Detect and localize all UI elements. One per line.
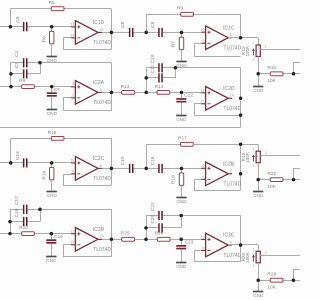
wire (R10 to edge) [283, 73, 300, 75]
wire (to C20) [146, 227, 158, 229]
svg-text:10: 10 [70, 159, 74, 163]
junction (IC3C output) [239, 243, 243, 247]
svg-text:TL074D: TL074D [93, 100, 111, 106]
ground (below C19) [51, 244, 53, 257]
wire (to C17) [10, 209, 23, 211]
wire (C17 feedback top) [27, 209, 111, 211]
wire (to IC3D -in) [63, 244, 71, 246]
wire (down to pot R19) [258, 144, 260, 151]
wire (C8 to C9) [134, 32, 159, 34]
svg-text:GND: GND [47, 193, 58, 198]
svg-text:TL074D: TL074D [223, 182, 241, 188]
junction (pot R19 bottom) [256, 178, 260, 182]
op-amp IC2D [201, 86, 242, 112]
svg-text:7: 7 [230, 169, 232, 173]
capacitor C11 [158, 73, 160, 82]
wire (C4 feedback top) [27, 62, 111, 64]
svg-text:R13: R13 [121, 84, 130, 90]
svg-text:10k: 10k [267, 78, 275, 84]
wire (to C4) [11, 62, 23, 64]
wire (C21/C20 node vertical) [146, 216, 148, 240]
svg-text:2: 2 [265, 251, 267, 255]
wire (C10 feedback top) [175, 67, 240, 69]
ground (below R18) [181, 185, 183, 197]
junction (C19 tap) [50, 232, 54, 236]
junction (R18 tap) [180, 167, 184, 171]
svg-text:100K: 100K [245, 251, 250, 263]
svg-text:IC1D: IC1D [93, 20, 105, 26]
wire (input row2) [0, 86, 72, 88]
resistor R8 [22, 85, 35, 89]
resistor R13 [122, 91, 135, 95]
wire (feedback right edge row3) [111, 138, 113, 185]
svg-text:IC2A: IC2A [93, 80, 105, 86]
op-amp IC2B [201, 162, 241, 188]
junction (row3 input node) [9, 161, 13, 165]
resistor R22 [270, 178, 283, 182]
wire (to R17) [146, 144, 180, 146]
capacitor C8 [129, 28, 131, 37]
svg-text:14: 14 [100, 235, 104, 239]
svg-text:GND: GND [253, 88, 264, 93]
junction (R17 right) [239, 143, 243, 147]
wire (IC3C out down to loop) [240, 245, 242, 262]
wire (IC2A output) [98, 92, 122, 94]
svg-text:9: 9 [72, 170, 74, 174]
wire (pot bottom) [258, 57, 260, 74]
wire (wiper of R28) [260, 255, 300, 257]
capacitor C13 [23, 158, 25, 167]
junction (C10/C11 right) [174, 66, 178, 70]
svg-text:IC3D: IC3D [93, 227, 105, 233]
svg-text:R7: R7 [170, 41, 176, 47]
ground (below pot R12) [258, 74, 260, 87]
wire (IC3C output to pot) [228, 244, 258, 246]
svg-text:IC1C: IC1C [223, 25, 235, 31]
trimmer potentiometer R28 100K [241, 248, 267, 269]
wire (input row4) [0, 233, 72, 235]
junction (R29 right) [292, 278, 296, 282]
wire (node A2 vertical) [10, 63, 12, 87]
junction (feedback/bus) [239, 113, 243, 117]
capacitor C6 [23, 22, 25, 31]
wire (C3/C4 join) [40, 63, 42, 74]
svg-text:TL074D: TL074D [223, 46, 241, 52]
svg-text:100K: 100K [245, 151, 250, 163]
wire (R22 to edge) [283, 179, 300, 181]
svg-text:R6: R6 [41, 36, 47, 42]
svg-text:C17: C17 [14, 196, 20, 205]
svg-text:R14: R14 [155, 84, 164, 90]
junction (row2 input node) [9, 85, 13, 89]
junction (C3 left) [9, 72, 13, 76]
wire (IC2C feedback loop) [64, 175, 112, 186]
wire (to R10) [258, 73, 270, 75]
resistor R10 [270, 72, 283, 76]
wire (C10 right) [163, 67, 176, 69]
wire (C21 feedback top) [181, 215, 240, 217]
trimmer potentiometer R12 100K [241, 41, 267, 62]
svg-text:TL074D: TL074D [223, 253, 241, 259]
capacitor C17 [23, 205, 25, 214]
wire (IC2B feedback loop) [195, 180, 241, 191]
svg-text:TL074D: TL074D [223, 106, 241, 112]
svg-text:10K: 10K [267, 184, 276, 190]
svg-text:2: 2 [265, 45, 267, 49]
svg-text:2: 2 [265, 151, 267, 155]
junction (C3/C4 right) [38, 61, 42, 65]
junction (IC2A output) [110, 91, 114, 95]
svg-text:C20: C20 [150, 214, 156, 223]
wire (to R18) [181, 168, 183, 173]
junction (C12 tap) [180, 91, 184, 95]
wire (C18 to join) [27, 221, 40, 223]
wire (to R6) [51, 27, 53, 32]
svg-text:14: 14 [100, 28, 104, 32]
wire (down to pot R28) [258, 245, 260, 251]
ground (below pot R19) [258, 180, 260, 192]
svg-text:1: 1 [253, 41, 255, 45]
resistor R5 [51, 7, 64, 11]
svg-text:R23: R23 [19, 225, 28, 231]
svg-text:IC2D: IC2D [223, 86, 235, 92]
capacitor C3 [23, 69, 25, 78]
svg-text:IC3C: IC3C [223, 233, 235, 239]
wire (to C11) [146, 77, 158, 79]
svg-text:C23: C23 [185, 240, 194, 246]
wire (down to pot R12) [258, 38, 260, 45]
wire (node A3 up to R15) [10, 138, 12, 163]
capacitor C18 [23, 217, 25, 226]
junction (R6 tap) [50, 25, 54, 29]
junction (C20/C21 right) [179, 214, 183, 218]
ground (below C7) [51, 97, 53, 110]
resistor R29 [270, 278, 283, 282]
wire (IC3D feedback loop) [64, 245, 112, 257]
svg-text:R8: R8 [19, 78, 25, 84]
wire (wiper of R19) [260, 155, 300, 157]
wire (to C10) [146, 67, 158, 69]
wire (to IC1C -in) [194, 43, 202, 45]
svg-text:12: 12 [70, 230, 74, 234]
svg-text:10: 10 [201, 235, 205, 239]
resistor R15 [51, 137, 64, 141]
wire (IC1C output to pot) [228, 37, 258, 39]
svg-text:R9: R9 [177, 6, 183, 12]
svg-text:C18: C18 [14, 208, 20, 217]
junction (pot R28 bottom) [256, 278, 260, 282]
wire (up to edge) [294, 169, 301, 180]
svg-text:IC2C: IC2C [93, 156, 105, 162]
junction (IC1C output) [239, 36, 243, 40]
svg-text:GND: GND [46, 258, 57, 263]
ground (below R6) [51, 44, 53, 57]
resistor R7 [179, 37, 183, 50]
wire (node A3 to IC2C +in) [27, 162, 72, 164]
capacitor C7 [51, 87, 53, 93]
wire (to IC1D -in) [63, 37, 71, 39]
svg-text:TL074D: TL074D [93, 247, 111, 253]
junction (IC2C output) [110, 167, 114, 171]
svg-text:12: 12 [201, 89, 205, 93]
wire (node A1 to IC1D +in) [27, 26, 72, 28]
wire (IC2D feedback loop) [195, 104, 241, 116]
wire (to R7) [181, 32, 183, 37]
svg-text:3: 3 [72, 83, 74, 87]
op-amp IC2C [70, 156, 111, 182]
junction (row1 input node) [9, 25, 13, 29]
junction (IC1D output) [110, 31, 114, 35]
svg-text:R22: R22 [267, 171, 276, 177]
svg-text:5: 5 [203, 164, 205, 168]
junction (R9 tap) [144, 31, 148, 35]
resistor R17 [180, 142, 193, 146]
svg-text:3: 3 [253, 164, 255, 168]
wire (to IC2D -in) [194, 103, 202, 105]
capacitor C9 [158, 28, 160, 37]
svg-text:GND: GND [253, 193, 264, 198]
resistor R14 [157, 91, 170, 95]
svg-text:13: 13 [70, 241, 74, 245]
svg-text:C16: C16 [150, 156, 156, 165]
capacitor C12 [181, 92, 183, 98]
junction (R13/R14 node) [144, 91, 148, 95]
wire (C11 right) [163, 77, 176, 79]
wire (to IC2B -in) [194, 179, 202, 181]
capacitor C20 [158, 223, 160, 232]
capacitor C21 [158, 211, 160, 220]
svg-text:8: 8 [230, 33, 232, 37]
junction (C11 left) [144, 76, 148, 80]
wire (to C3) [11, 73, 23, 75]
junction (R22 right) [292, 178, 296, 182]
junction (R10 right) [292, 72, 296, 76]
wire (input row3) [0, 162, 23, 164]
wire (R17 to pot) [193, 144, 258, 146]
wire (IC1D output) [98, 32, 129, 34]
wire (R17 feedback path up) [146, 145, 148, 169]
resistor R6 [50, 31, 54, 44]
svg-text:C8: C8 [120, 21, 126, 27]
wire (R9 feedback path) [147, 15, 241, 38]
capacitor C10 [158, 63, 160, 72]
junction (C18 left) [8, 220, 12, 224]
wire (to IC2C -in) [63, 174, 71, 176]
svg-text:3: 3 [253, 58, 255, 62]
wire (to R16) [51, 163, 53, 168]
svg-text:6: 6 [203, 175, 205, 179]
ground (below C12) [181, 103, 183, 116]
ground (below pot R28) [258, 280, 260, 291]
wire (node A4 vertical) [10, 209, 12, 233]
junction (C20 left) [144, 226, 148, 230]
svg-text:R15: R15 [48, 130, 57, 136]
svg-text:R16: R16 [41, 170, 47, 179]
wire (IC2C output) [98, 168, 129, 170]
wire (C10/C11 node vertical) [146, 68, 148, 93]
wire (IC3D output) [98, 239, 122, 241]
wire (R14 to IC2D +in) [170, 92, 202, 94]
resistor R23 [22, 232, 35, 236]
svg-text:C9: C9 [150, 21, 156, 27]
wire (up to edge) [294, 270, 301, 281]
svg-text:R18: R18 [170, 175, 176, 184]
svg-text:C12: C12 [184, 93, 193, 99]
svg-text:C13: C13 [15, 151, 21, 160]
svg-text:9: 9 [203, 39, 205, 43]
svg-text:1: 1 [253, 248, 255, 252]
wire (up to edge) [294, 63, 301, 74]
svg-text:GND: GND [176, 264, 187, 269]
svg-text:R25: R25 [121, 231, 130, 237]
wire (to R22) [258, 179, 270, 181]
wire (wiper of R12) [260, 49, 300, 51]
svg-text:IC2B: IC2B [223, 162, 235, 168]
wire (to IC2A -in) [63, 97, 71, 99]
junction (R7 tap) [180, 31, 184, 35]
svg-text:C4: C4 [14, 51, 20, 57]
svg-text:R5: R5 [49, 0, 55, 6]
ground (below R16) [51, 180, 53, 192]
svg-text:12: 12 [70, 23, 74, 27]
wire (pot bottom) [258, 263, 260, 280]
resistor R18 [179, 173, 183, 186]
svg-text:R10: R10 [267, 65, 276, 71]
svg-text:GND: GND [47, 111, 58, 116]
wire (R29 to edge) [283, 280, 300, 282]
wire (feedback right edge row4) [111, 209, 113, 256]
ground (below C23) [181, 249, 183, 262]
wire (IC2B out down to loop) [240, 174, 242, 190]
wire (to C18) [10, 221, 23, 223]
wire (C21/C20 join) [181, 216, 183, 228]
wire (R5 feedback top) [10, 8, 111, 10]
wire (C3 to join) [27, 73, 40, 75]
wire (to C21) [146, 215, 158, 217]
wire (R26 to IC3C +in) [170, 239, 202, 241]
op-amp IC3C [201, 233, 242, 259]
svg-text:C10: C10 [150, 54, 156, 63]
junction (pot R12 bottom) [256, 72, 260, 76]
capacitor C4 [23, 58, 25, 67]
junction (R25/R26 node) [144, 238, 148, 242]
svg-text:C11: C11 [150, 65, 156, 74]
svg-text:14: 14 [230, 94, 234, 98]
junction (C23 tap) [179, 238, 183, 242]
svg-text:100K: 100K [245, 45, 250, 57]
wire (feedback right edge / to output) [111, 9, 113, 50]
wire (node A1 up to R5) [10, 9, 12, 27]
op-amp IC1D [70, 20, 111, 46]
trimmer potentiometer R19 100K [241, 147, 267, 168]
wire (feedback down to IC3C out) [240, 216, 242, 246]
capacitor C23 [181, 239, 183, 245]
svg-text:TL074D: TL074D [93, 176, 111, 182]
junction (row4 input node) [8, 232, 12, 236]
wire (feedback down to IC2D out) [240, 68, 242, 99]
wire (R13 to R14) [135, 92, 158, 94]
svg-text:R29: R29 [267, 272, 276, 278]
svg-text:1: 1 [253, 147, 255, 151]
wire (IC2A feedback loop) [64, 98, 112, 111]
junction (C17/C18 right) [38, 208, 42, 212]
junction (IC2D output) [239, 97, 243, 101]
wire (IC2D output down) [240, 98, 242, 127]
wire (IC1D feedback loop) [64, 38, 112, 50]
wire (R25 to R26) [135, 239, 158, 241]
wire (C10/C11 join) [175, 68, 177, 78]
svg-text:13: 13 [70, 34, 74, 38]
wire (C9 to IC1C +in) [163, 32, 202, 34]
svg-text:GND: GND [176, 117, 187, 122]
capacitor C15 [129, 164, 131, 173]
junction (IC2B output) [239, 172, 243, 176]
resistor R16 [50, 167, 54, 180]
svg-text:R17: R17 [178, 136, 187, 142]
junction (R17 tap) [144, 167, 148, 171]
wire (input row1) [0, 26, 23, 28]
junction (C7 tap) [50, 85, 54, 89]
wire (C21 right) [163, 215, 182, 217]
svg-text:1: 1 [100, 88, 102, 92]
svg-text:GND: GND [176, 199, 187, 204]
resistor R26 [157, 237, 170, 241]
svg-text:10K: 10K [267, 285, 276, 291]
svg-text:GND: GND [253, 293, 264, 298]
svg-text:3: 3 [253, 264, 255, 268]
ground (below R7) [181, 50, 183, 62]
svg-text:9: 9 [203, 246, 205, 250]
wire (down to IC2B out) [240, 144, 242, 174]
capacitor C19 [51, 234, 53, 240]
resistor R25 [122, 237, 135, 241]
capacitor C16 [158, 164, 160, 173]
svg-text:TL074D: TL074D [93, 40, 111, 46]
junction (IC3D output) [110, 238, 114, 242]
svg-text:C6: C6 [15, 16, 21, 22]
wire (IC3C feedback loop) [195, 251, 241, 262]
wire (feedback right edge row2) [111, 63, 113, 111]
svg-text:C21: C21 [150, 202, 156, 211]
svg-text:C7: C7 [54, 87, 60, 93]
op-amp IC1C [201, 25, 242, 51]
wire (C17/C18 join) [40, 209, 42, 221]
wire (C20 right) [163, 227, 182, 229]
svg-text:C3: C3 [14, 62, 20, 68]
op-amp IC2A [71, 80, 111, 106]
wire (pot bottom) [258, 163, 260, 180]
svg-text:13: 13 [201, 100, 205, 104]
wire (C16 to IC2B +in) [163, 168, 202, 170]
wire (to R29) [258, 280, 270, 282]
wire (row2 output bus) [0, 127, 241, 129]
wire (IC1C feedback loop) [195, 44, 241, 57]
svg-text:2: 2 [72, 94, 74, 98]
op-amp IC3D [70, 227, 111, 253]
wire (C15 to C16) [134, 168, 159, 170]
wire (to IC3C -in) [195, 250, 202, 252]
wire (R15 feedback top) [11, 138, 112, 140]
junction (R16 tap) [50, 161, 54, 165]
svg-text:C19: C19 [54, 234, 63, 240]
svg-text:8: 8 [230, 240, 232, 244]
svg-text:C15: C15 [120, 156, 126, 165]
svg-text:8: 8 [100, 164, 102, 168]
svg-text:10: 10 [201, 28, 205, 32]
resistor R9 [181, 12, 194, 16]
